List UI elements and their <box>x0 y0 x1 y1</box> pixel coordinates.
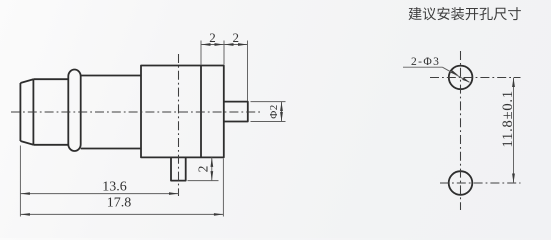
svg-text:2-Φ3: 2-Φ3 <box>411 56 440 68</box>
vertical centerline through holes <box>460 51 462 210</box>
17.8 dim arrows <box>20 213 30 216</box>
leg length dim arrows <box>211 157 214 167</box>
svg-text:13.6: 13.6 <box>102 180 127 195</box>
mid cylinder bottom edge <box>81 148 141 150</box>
top mounting hole <box>449 66 473 90</box>
pin dia dim arrows <box>280 102 283 112</box>
nose cylinder top edge <box>33 78 68 80</box>
leader underline for 2-phi3 <box>403 66 442 68</box>
nose cylinder bottom edge <box>33 144 68 146</box>
retaining bead (capsule) <box>68 70 80 152</box>
top dim arrows 2,2 <box>201 43 211 46</box>
svg-text:2: 2 <box>209 30 216 45</box>
left extension line at tip <box>19 146 21 217</box>
leader line into top hole <box>442 67 469 82</box>
main body rectangle <box>141 66 224 158</box>
PCB mounting leg <box>171 157 186 180</box>
extension line at pin end <box>247 41 249 102</box>
dimension line 17.8 <box>20 213 223 215</box>
body step line <box>200 66 202 158</box>
extension line at step <box>200 41 202 65</box>
top dimension line 2,2 <box>201 44 248 46</box>
bottom mounting hole <box>449 171 473 195</box>
svg-text:Φ2: Φ2 <box>268 104 280 119</box>
extension line at body right edge <box>223 41 225 65</box>
right extension line below body <box>222 159 224 217</box>
leader arrow into top hole <box>451 70 458 75</box>
svg-text:11.8±0.1: 11.8±0.1 <box>500 90 516 147</box>
horizontal centerline <box>11 111 260 113</box>
dimension line 11.8 <box>513 78 515 184</box>
13.6 dim arrows <box>20 192 30 195</box>
leg bottom extension <box>188 180 219 182</box>
pin dia extension top <box>251 101 286 103</box>
vertical centerline of body/leg <box>178 54 180 196</box>
pin dia extension bottom <box>251 121 286 123</box>
nose chamfer bottom <box>20 141 33 145</box>
svg-text:2: 2 <box>233 30 240 45</box>
leg length dimension line <box>211 157 213 180</box>
svg-text:2: 2 <box>196 166 211 173</box>
connector nose tip face <box>19 83 21 141</box>
top hole horizontal centerline <box>430 77 521 79</box>
nose chamfer edge line <box>32 79 34 145</box>
mid cylinder top edge <box>81 75 141 77</box>
title 建议安装开孔尺寸 (vector glyphs) <box>409 7 521 20</box>
11.8 dim arrows <box>512 78 515 88</box>
bottom hole horizontal centerline <box>440 182 521 184</box>
dimension line 13.6 <box>20 193 178 195</box>
nose chamfer top <box>20 79 33 83</box>
svg-text:17.8: 17.8 <box>107 196 132 211</box>
rear contact pin <box>224 102 248 122</box>
pin dia dimension line <box>281 102 283 122</box>
